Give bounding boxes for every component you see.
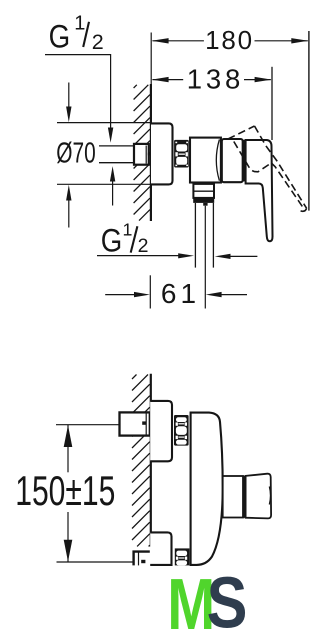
dimension O70 arrows (57, 83, 150, 228)
dimension 61 (105, 275, 247, 308)
dimension 150+-15 (56, 425, 134, 562)
arrow right of pipe (215, 254, 258, 259)
wall face line (top view) (150, 84, 152, 221)
wall face line (side view) (150, 374, 152, 547)
dark gap band (243, 140, 246, 182)
dimension 138 (152, 77, 272, 82)
label G 1/2 top (49, 13, 104, 55)
valve body (top view) (190, 138, 221, 183)
knob end arc (269, 487, 270, 505)
supply fitting behind wall, bottom (side view) (134, 552, 150, 566)
dimension 180 (152, 38, 309, 43)
knob stem (side view) (223, 476, 243, 518)
svg-text:61: 61 (161, 278, 200, 309)
escutcheon bottom (side view) (150, 532, 171, 565)
S-union hex top (side view) (174, 415, 189, 446)
svg-text:2: 2 (92, 30, 104, 54)
svg-text:G: G (49, 19, 71, 55)
svg-text:150±15: 150±15 (15, 467, 115, 514)
svg-text:2: 2 (138, 235, 149, 257)
wall hatching (top view) (134, 85, 150, 221)
svg-text:Ø70: Ø70 (56, 137, 95, 169)
svg-text:S: S (207, 564, 248, 640)
knob head (side view) (246, 474, 272, 519)
handle hub and lever (top view, solid) (246, 140, 273, 241)
leader from G1/2 bottom (97, 253, 194, 258)
svg-text:1: 1 (123, 220, 133, 240)
knob divider (243, 476, 246, 518)
extension line right 138 (271, 67, 273, 140)
leader from G1/2 top (45, 55, 113, 143)
svg-text:180: 180 (205, 25, 254, 55)
handle alternate position (dashed) (228, 126, 307, 211)
label G 1/2 bottom (101, 220, 149, 259)
slash of G1/2 bottom (131, 226, 138, 252)
slash of G1/2 top (83, 22, 89, 47)
pipe center line / 61 extension (204, 206, 206, 309)
shower pipe (top view) (195, 203, 213, 268)
supply fitting behind wall, top (side view) (120, 412, 150, 435)
escutcheon top (side view) (150, 401, 172, 461)
escutcheon (top view) (151, 123, 173, 184)
svg-text:138: 138 (187, 64, 244, 95)
outlet block below body (top view) (193, 184, 214, 206)
S-union hex bottom (side view, clipped) (175, 548, 190, 565)
svg-text:1: 1 (74, 13, 85, 35)
extension line right 180 (308, 31, 310, 211)
S-union hex nut (top view) (174, 140, 189, 168)
union nut behind wall (top view) (134, 144, 151, 165)
valve body (side view) (191, 413, 223, 565)
MS logo (167, 564, 247, 640)
svg-text:G: G (101, 223, 122, 259)
supply pipe behind wall (top view) (99, 146, 134, 163)
extension line left (wall plane) (150, 33, 152, 85)
wall hatching (side view) (132, 375, 150, 547)
cartridge sleeve (top view) (222, 139, 243, 182)
